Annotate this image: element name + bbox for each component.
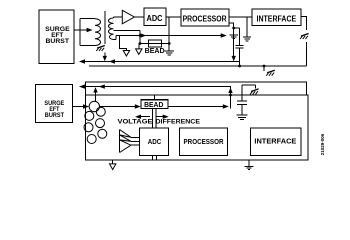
svg-text:INTERFACE: INTERFACE	[257, 14, 297, 24]
svg-text:INTERFACE: INTERFACE	[254, 136, 296, 145]
svg-text:PROCESSOR: PROCESSOR	[183, 14, 228, 24]
svg-text:PROCESSOR: PROCESSOR	[184, 137, 224, 146]
svg-text:ADC: ADC	[147, 13, 163, 23]
svg-text:ADC: ADC	[148, 137, 162, 146]
svg-text:BURST: BURST	[46, 38, 70, 45]
svg-text:DIFFERENCE: DIFFERENCE	[156, 119, 201, 126]
svg-text:VOLTAGE: VOLTAGE	[118, 119, 153, 126]
svg-text:BEAD: BEAD	[145, 46, 166, 55]
svg-text:21029-006: 21029-006	[320, 133, 325, 155]
svg-text:BEAD: BEAD	[144, 100, 163, 109]
svg-text:BURST: BURST	[45, 112, 64, 119]
